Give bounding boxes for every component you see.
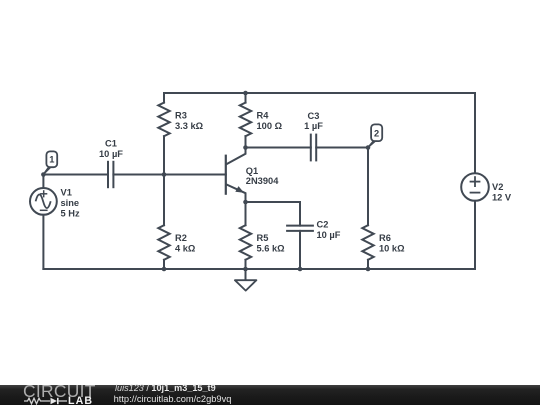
voltage source V1 sine <box>30 188 57 215</box>
label R4 100 Ohm <box>257 111 283 131</box>
wire node2 to R6 <box>367 148 369 226</box>
resistor R4 <box>240 93 251 148</box>
label Q1 2N3904 <box>246 166 279 186</box>
wire collector to C3 <box>246 147 311 149</box>
svg-text:3.3 kΩ: 3.3 kΩ <box>175 121 204 131</box>
svg-text:2: 2 <box>374 128 379 138</box>
wire C1 to Q1 base <box>113 174 225 176</box>
capacitor C3 <box>311 134 316 162</box>
svg-text:12 V: 12 V <box>492 192 512 202</box>
wire bottom ground rail <box>43 268 475 270</box>
svg-text:1: 1 <box>49 155 54 165</box>
svg-text:Q1: Q1 <box>246 166 258 176</box>
svg-text:C1: C1 <box>105 139 117 149</box>
svg-text:10 kΩ: 10 kΩ <box>379 244 405 254</box>
CircuitLab logo <box>23 385 93 406</box>
junction dot R6 bottom <box>366 267 371 272</box>
resistor R6 <box>362 225 373 269</box>
wire V1 top lead <box>42 175 44 189</box>
footer url text <box>114 394 232 404</box>
wire emitter to C2 <box>246 202 301 226</box>
wire V2 bottom lead <box>474 201 476 269</box>
junction dot R4 top <box>243 91 248 96</box>
label R2 4 kOhm <box>175 233 196 253</box>
svg-text:R3: R3 <box>175 111 187 121</box>
svg-text:C3: C3 <box>308 111 320 121</box>
svg-text:sine: sine <box>61 198 80 208</box>
label C2 10 uF <box>317 220 341 240</box>
resistor R3 <box>158 93 169 175</box>
svg-text:R4: R4 <box>257 111 270 121</box>
svg-text:V2: V2 <box>492 182 503 192</box>
label C1 10 uF <box>99 139 123 159</box>
node flag 2 <box>368 124 382 147</box>
junction dot ground <box>243 267 248 272</box>
junction dot C2 bottom <box>298 267 303 272</box>
junction dot R3-R2 base wire <box>162 172 167 177</box>
svg-text:1 µF: 1 µF <box>304 121 323 131</box>
voltage source V2 <box>461 173 489 201</box>
junction dot Q1 emitter <box>243 200 248 205</box>
wire V1 bottom lead <box>42 215 44 269</box>
resistor R2 <box>158 175 169 270</box>
svg-text:R5: R5 <box>257 233 269 243</box>
transistor Q1 2N3904 <box>226 148 246 203</box>
wire node1 to C1 <box>43 174 108 176</box>
footer bar <box>0 385 540 406</box>
svg-text:V1: V1 <box>61 188 72 198</box>
svg-text:C2: C2 <box>317 220 329 230</box>
wire C2 bottom lead <box>299 231 301 269</box>
svg-text:10 µF: 10 µF <box>317 230 341 240</box>
label R5 5.6 kOhm <box>257 233 286 253</box>
svg-text:2N3904: 2N3904 <box>246 176 279 186</box>
label R6 10 kOhm <box>379 233 405 253</box>
resistor R5 <box>240 202 251 269</box>
label C3 1 uF <box>304 111 323 131</box>
footer title text <box>115 383 216 393</box>
label R3 3.3 kOhm <box>175 111 204 131</box>
ground symbol <box>235 269 257 291</box>
svg-text:5 Hz: 5 Hz <box>61 208 80 218</box>
junction dot Q1 collector <box>243 145 248 150</box>
node flag 1 <box>43 151 57 174</box>
label V1 sine 5 Hz <box>61 188 80 219</box>
wire C3 to node2 <box>316 147 368 149</box>
junction dot node2 <box>366 145 371 150</box>
wire V2 top lead <box>474 93 476 173</box>
junction dot node1 <box>41 172 46 177</box>
label V2 12 V <box>492 182 512 202</box>
svg-text:R2: R2 <box>175 233 187 243</box>
svg-text:100 Ω: 100 Ω <box>257 121 283 131</box>
wire top supply rail <box>164 92 475 94</box>
svg-text:R6: R6 <box>379 233 391 243</box>
svg-text:10 µF: 10 µF <box>99 149 123 159</box>
capacitor C2 <box>286 226 314 231</box>
capacitor C1 <box>108 161 113 188</box>
svg-text:5.6 kΩ: 5.6 kΩ <box>257 244 286 254</box>
junction dot R2 bottom <box>162 267 167 272</box>
svg-text:4 kΩ: 4 kΩ <box>175 244 196 254</box>
